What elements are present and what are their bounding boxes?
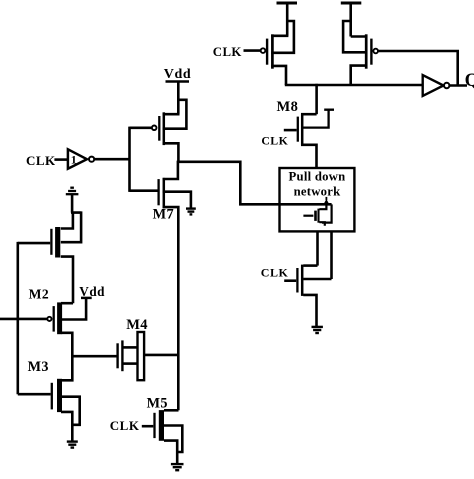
transistor MN drain lead	[319, 205, 326, 209]
transistor M6 bulk lead	[303, 278, 331, 281]
transistor M6 source lead to ground	[303, 295, 316, 326]
transistor P2 gate bubble	[373, 49, 378, 54]
ground (M7 bulk)	[186, 209, 196, 215]
wire P1 drain down to node rail	[271, 66, 286, 85]
transistor M2 channel	[57, 302, 62, 334]
transistor M2 gate bar	[53, 306, 55, 332]
wire input rail to M1 gate	[18, 242, 50, 245]
node D input wire	[0, 318, 47, 321]
wire P3 drain to node Y	[163, 143, 179, 162]
transistor P2 gate bar	[370, 39, 372, 65]
op-amp U1 clock inverter	[68, 149, 87, 168]
transistor M5 gate bar	[153, 413, 155, 438]
Vdd rail bar (right keeper PMOS)	[341, 2, 362, 5]
transistor P3 gate bar	[158, 116, 160, 141]
wire input rail (left vertical)	[16, 242, 19, 394]
transistor M7 channel	[163, 178, 166, 208]
svg-text:M2: M2	[29, 286, 49, 301]
transistor M1 source lead	[61, 213, 73, 229]
svg-text:network: network	[294, 185, 342, 199]
inverter U1 output bubble	[89, 157, 94, 162]
transistor P3 (clocked PMOS) gate wire	[130, 127, 152, 130]
wire internal node rail X	[285, 84, 423, 87]
transistor M6 channel	[301, 265, 304, 296]
transistor M8 drain lead	[301, 113, 317, 116]
transistor M7 gate wire	[130, 189, 158, 192]
transistor P1 (left precharge PMOS) source lead	[271, 34, 288, 37]
transistor M3 bulk lead	[61, 397, 80, 425]
ground (M6)	[312, 327, 323, 333]
wire box to M6 bulk	[330, 231, 333, 279]
wire P2 drain down to node rail	[351, 66, 368, 85]
svg-text:Vdd: Vdd	[79, 284, 105, 299]
transistor P1 bulk lead	[271, 20, 295, 53]
transistor M2 gate bubble	[47, 317, 51, 321]
ground (M3)	[67, 442, 78, 448]
transistor MN channel	[317, 209, 319, 223]
wire gate rail vertical	[128, 127, 131, 192]
wire node Y to pull-down box	[177, 162, 331, 205]
wire node rail to M8 drain	[315, 84, 318, 114]
svg-text:M4: M4	[126, 317, 148, 333]
wire CLK to M8 gate	[284, 129, 297, 132]
flipped ground (M1 source supply)	[66, 188, 79, 195]
wire box to M6 drain	[316, 231, 319, 265]
transistor P1 gate bar	[266, 39, 268, 65]
transistor MN bulk wrap wire	[322, 204, 332, 222]
transistor M7 gate bar	[157, 179, 159, 205]
transistor MN source lead	[319, 222, 324, 226]
wire Vdd to P1 source	[286, 2, 289, 36]
wire M1 drain down to M2	[61, 257, 73, 304]
wire CLK to inverter U1	[54, 158, 68, 161]
svg-text:M3: M3	[28, 359, 49, 375]
svg-text:CLK: CLK	[261, 266, 289, 280]
transistor M8 gate bar	[297, 117, 299, 142]
svg-text:CLK: CLK	[110, 418, 140, 433]
svg-text:CLK: CLK	[261, 133, 288, 147]
wire M8 source down to pull-down box	[301, 145, 317, 168]
wire flipped ground to M1	[71, 194, 74, 212]
svg-text:M8: M8	[277, 99, 299, 115]
wire P2 gate feedback from Q	[378, 51, 458, 85]
ground (M5)	[171, 464, 184, 470]
transistor P1 channel	[271, 34, 274, 68]
transistor M3 channel	[57, 379, 62, 412]
Vdd T-bar (M2 bulk)	[81, 297, 92, 300]
arrow input stub	[325, 197, 327, 200]
svg-text:Q: Q	[465, 70, 474, 91]
op-amp U2 output inverter	[423, 75, 444, 96]
transistor P3 gate bubble	[152, 126, 157, 131]
transistor M1 channel	[55, 227, 60, 258]
svg-text:Pull down: Pull down	[289, 169, 346, 183]
transistor M3 gate bar	[51, 383, 53, 410]
transistor M4 gate bar 1	[116, 343, 118, 368]
transistor M5 bulk lead	[164, 426, 182, 453]
wire CLK to P1 gate	[244, 49, 261, 52]
svg-text:CLK: CLK	[213, 45, 242, 59]
Vdd rail bar (left precharge PMOS)	[277, 2, 298, 5]
transistor P3 bulk lead	[163, 100, 187, 129]
transistor M5 source lead to ground	[164, 441, 177, 464]
pull-down network box	[280, 168, 355, 231]
transistor M4 source stub	[123, 362, 138, 365]
transistor P2 bulk lead	[343, 20, 367, 53]
transistor M8 channel	[301, 113, 304, 145]
transistor M3 source lead to ground	[61, 412, 72, 441]
transistor P2 channel	[365, 34, 368, 68]
transistor M5 drain lead	[164, 409, 179, 412]
svg-text:M7: M7	[153, 207, 174, 223]
transistor M4 drain stub	[123, 346, 138, 349]
transistor P1 gate bubble	[261, 48, 266, 53]
wire input rail to M3 gate	[18, 393, 51, 396]
transistor P3 source lead	[163, 113, 180, 116]
wire M7 drain up to node Y	[163, 161, 178, 179]
wire node A to M4 gate	[71, 355, 116, 358]
svg-text:1: 1	[71, 153, 77, 167]
transistor P3 channel	[163, 112, 166, 145]
wire M2 drain to node A	[62, 333, 73, 356]
transistor P2 (keeper PMOS) source lead	[351, 35, 368, 38]
inverter U2 output bubble	[444, 83, 449, 88]
transistor M8 bulk lead to supply bar	[301, 110, 334, 128]
wire U1 output to CMOS pair gates	[94, 158, 129, 161]
transistor M1 bulk lead	[61, 211, 81, 242]
transistor M2 bulk lead to Vdd	[62, 298, 87, 320]
transistor M4 channel box	[138, 332, 145, 380]
wire M4 to long vertical	[145, 354, 180, 357]
transistor MN gate bar	[314, 211, 317, 221]
transistor M6 gate bar	[296, 268, 298, 293]
wire inverter output to Q	[449, 84, 467, 87]
svg-text:CLK: CLK	[26, 153, 56, 168]
wire CLK to M5 gate	[142, 425, 154, 428]
transistor MN (inside box) gate wire	[303, 215, 313, 217]
transistor M4 gate bar 2	[121, 340, 123, 371]
transistor M1 gate bar	[50, 229, 52, 255]
wire node A to M3 drain	[61, 356, 72, 380]
wire M7 source long vertical to M4/M5	[163, 207, 179, 410]
wire CLK to M6 gate	[284, 279, 296, 282]
transistor M5 channel	[159, 410, 164, 441]
transistor M2 top lead	[61, 302, 73, 305]
wire Vdd to P3 source	[177, 82, 180, 115]
transistor M6 drain lead	[303, 264, 317, 267]
wire Vdd to P2 source	[349, 2, 352, 37]
svg-text:Vdd: Vdd	[164, 67, 191, 82]
transistor M7 bulk lead to ground	[163, 192, 191, 208]
Vdd rail bar (middle)	[166, 80, 190, 83]
